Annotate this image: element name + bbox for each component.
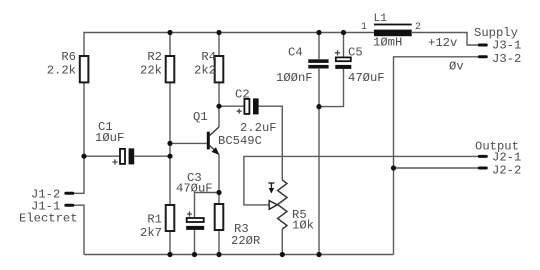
wire C5 bottom to C4 column bbox=[319, 69, 344, 107]
junction C5 top rail bbox=[341, 30, 346, 35]
svg-text:1ØmH: 1ØmH bbox=[373, 36, 402, 50]
wire R3 to bottom rail bbox=[218, 230, 220, 255]
potentiometer R5 bbox=[268, 180, 314, 233]
junction R4 top rail bbox=[216, 30, 221, 35]
wire 0v from J3-2 down to bottom rail bbox=[394, 57, 479, 255]
wire R4 column collector bbox=[218, 33, 220, 57]
svg-text:1: 1 bbox=[361, 22, 367, 33]
svg-text:+12v: +12v bbox=[428, 36, 457, 50]
wire L1 pin2 to J3-1 bbox=[412, 33, 478, 46]
svg-text:R4: R4 bbox=[201, 50, 216, 64]
capacitor C3 electrolytic bbox=[176, 171, 213, 230]
wire R1 to bottom rail bbox=[169, 231, 171, 255]
svg-text:C5: C5 bbox=[348, 46, 363, 60]
svg-text:2: 2 bbox=[415, 22, 421, 33]
node C1/R2/R1 bbox=[167, 154, 172, 159]
svg-text:2.2uF: 2.2uF bbox=[240, 121, 277, 135]
svg-text:47ØuF: 47ØuF bbox=[348, 71, 385, 85]
wire J1-2 to C1 node bbox=[74, 156, 84, 193]
wire C3 top to emitter junction bbox=[195, 193, 220, 218]
svg-text:1Øk: 1Øk bbox=[292, 219, 314, 233]
inductor L1 bbox=[361, 13, 421, 50]
node R6/C1/J1-2 bbox=[81, 154, 86, 159]
node 0v/J2-2 bbox=[391, 165, 396, 170]
svg-text:47ØuF: 47ØuF bbox=[176, 182, 213, 196]
capacitor C5 electrolytic bbox=[335, 46, 385, 86]
wire C3 bottom to rail bbox=[194, 230, 196, 255]
wire C1 row bbox=[84, 155, 120, 157]
svg-text:22k: 22k bbox=[140, 64, 162, 78]
svg-text:R2: R2 bbox=[147, 50, 162, 64]
wire C4 column bbox=[318, 33, 320, 60]
svg-text:J2-2: J2-2 bbox=[492, 164, 521, 178]
junction R3 bottom rail bbox=[216, 252, 221, 257]
svg-text:R1: R1 bbox=[147, 213, 162, 227]
connector J3 Supply bbox=[428, 26, 521, 74]
node Q1 base tap bbox=[167, 141, 172, 146]
wire C2 row bbox=[219, 105, 244, 107]
junction C4 top rail bbox=[316, 30, 321, 35]
connector J1 Electret bbox=[19, 188, 78, 226]
junction C3 bottom rail bbox=[192, 252, 197, 257]
svg-text:J3-1: J3-1 bbox=[492, 39, 521, 53]
svg-text:J2-1: J2-1 bbox=[492, 151, 521, 165]
svg-text:1ØuF: 1ØuF bbox=[95, 131, 124, 145]
svg-text:Electret: Electret bbox=[19, 212, 78, 226]
wire top rail +12v bbox=[84, 33, 374, 157]
svg-text:22ØR: 22ØR bbox=[231, 234, 260, 248]
wire R2 column bbox=[169, 33, 171, 57]
capacitor C1 electrolytic bbox=[95, 120, 134, 165]
wire base of Q1 bbox=[170, 142, 207, 144]
svg-text:1ØØnF: 1ØØnF bbox=[276, 71, 313, 85]
svg-text:2.2k: 2.2k bbox=[47, 64, 76, 78]
junction R5 bottom rail bbox=[280, 252, 285, 257]
wire C5 column bbox=[343, 33, 345, 58]
svg-text:2k7: 2k7 bbox=[140, 226, 162, 240]
svg-text:2k2: 2k2 bbox=[194, 64, 216, 78]
svg-text:Q1: Q1 bbox=[193, 110, 208, 124]
resistor R3 bbox=[215, 204, 261, 248]
svg-text:R6: R6 bbox=[61, 50, 76, 64]
wire J1-1 to bottom rail bbox=[74, 205, 84, 254]
svg-text:C2: C2 bbox=[235, 88, 250, 102]
wire J2-2 bbox=[394, 167, 479, 169]
svg-text:J3-2: J3-2 bbox=[492, 52, 521, 66]
resistor R2 bbox=[140, 50, 174, 82]
wire R5 bottom to rail bbox=[281, 229, 283, 255]
capacitor C2 electrolytic bbox=[235, 88, 277, 136]
svg-text:BC549C: BC549C bbox=[218, 134, 262, 148]
wire emitter to R3 bbox=[218, 155, 220, 206]
resistor R6 bbox=[47, 50, 89, 82]
connector J2 Output bbox=[475, 140, 521, 178]
svg-text:L1: L1 bbox=[374, 13, 388, 25]
junction R1 bottom rail bbox=[167, 252, 172, 257]
resistor R4 bbox=[194, 50, 223, 82]
resistor R1 bbox=[140, 205, 174, 240]
wire bottom rail bbox=[84, 254, 394, 256]
node emitter/C3/R3 bbox=[216, 190, 221, 195]
wire R5 wiper to output J2-1 bbox=[244, 156, 478, 205]
junction C4 bottom rail bbox=[316, 252, 321, 257]
svg-text:Øv: Øv bbox=[449, 60, 464, 74]
transistor Q1 BC549C bbox=[193, 110, 262, 155]
svg-text:C4: C4 bbox=[288, 46, 303, 60]
junction R2 top rail bbox=[167, 30, 172, 35]
capacitor C4 bbox=[276, 46, 329, 86]
node collector/C2 bbox=[216, 104, 221, 109]
node C4/C5 bottom bbox=[316, 104, 321, 109]
